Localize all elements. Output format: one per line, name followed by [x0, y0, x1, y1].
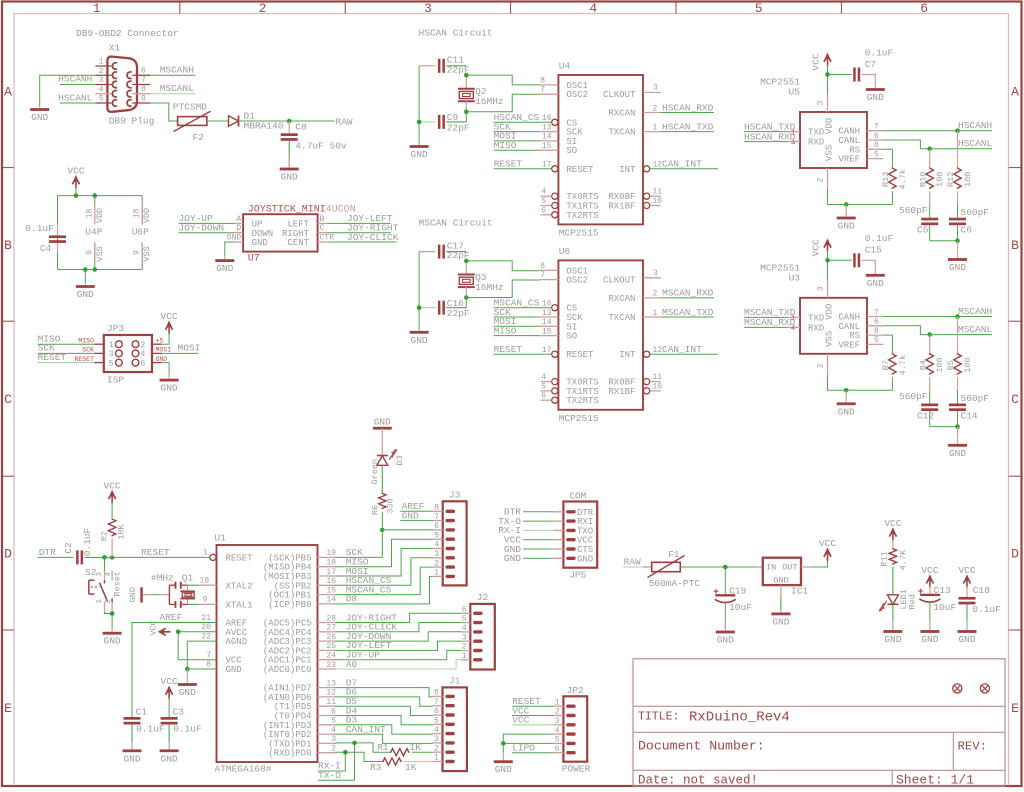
wire Q2 bottom to U4 pin7: [466, 94, 539, 122]
svg-text:4.7k: 4.7k: [898, 169, 908, 189]
svg-text:U7: U7: [248, 254, 260, 265]
svg-text:GND: GND: [577, 554, 593, 564]
IC U3 MCP2551: [800, 298, 867, 354]
svg-text:10: 10: [653, 382, 663, 391]
LED D3: [377, 428, 398, 465]
svg-text:3: 3: [109, 350, 114, 359]
svg-text:IN: IN: [766, 563, 776, 573]
frame row labels A-E right: [1011, 85, 1019, 717]
svg-text:HSCANL: HSCANL: [58, 92, 93, 103]
svg-text:5: 5: [874, 150, 879, 159]
svg-text:2: 2: [141, 341, 146, 350]
junction at C8: [287, 119, 292, 124]
svg-text:RAW: RAW: [336, 116, 353, 127]
svg-text:16: 16: [542, 300, 552, 309]
wire net MOSI: [494, 325, 540, 327]
svg-text:SO: SO: [566, 146, 577, 156]
svg-text:J3: J3: [449, 490, 461, 501]
title block: [633, 659, 1005, 786]
svg-text:7: 7: [874, 308, 879, 317]
svg-text:Date: not saved!: Date: not saved!: [638, 774, 758, 788]
svg-text:1: 1: [653, 309, 658, 318]
svg-text:4: 4: [99, 85, 104, 94]
svg-text:RXD: RXD: [808, 138, 824, 148]
J3 pin stubs: [433, 511, 443, 576]
svg-text:GND: GND: [179, 687, 196, 698]
svg-text:D8: D8: [346, 594, 358, 605]
U5 pin 5 VREF stub: [867, 158, 883, 160]
svg-text:560pF: 560pF: [961, 393, 990, 404]
JP3 small red pin labels left: [74, 338, 94, 363]
ground at JP3: [168, 374, 170, 379]
svg-text:11: 11: [653, 373, 663, 382]
svg-text:C10: C10: [973, 585, 990, 596]
wire LED1 to GND: [892, 604, 894, 630]
LED LED1: [879, 595, 899, 612]
svg-text:7: 7: [540, 271, 545, 280]
svg-text:Q1: Q1: [182, 573, 194, 584]
ground under S2: [111, 629, 113, 632]
svg-text:24: 24: [326, 652, 336, 661]
svg-text:RESET: RESET: [566, 165, 594, 175]
capacitor C3: [161, 717, 178, 750]
svg-text:RXCAN: RXCAN: [608, 294, 635, 304]
svg-text:VSS: VSS: [95, 246, 105, 261]
svg-text:C1: C1: [136, 707, 148, 718]
svg-text:LIPO: LIPO: [512, 743, 535, 754]
svg-text:U6: U6: [559, 246, 571, 257]
svg-text:GND: GND: [838, 221, 855, 232]
wire net LIPO at JP2: [512, 752, 554, 754]
svg-text:RESET: RESET: [38, 352, 67, 363]
svg-text:0.1uF: 0.1uF: [136, 724, 165, 735]
svg-text:OSC2: OSC2: [566, 276, 588, 286]
connector JP2 POWER: [563, 696, 587, 761]
svg-text:5: 5: [331, 717, 336, 726]
power VCC above R11: [884, 518, 901, 541]
U4 TXnRTS pin 4: [541, 188, 558, 200]
wire JP3 +5 to VCC: [162, 332, 170, 344]
svg-text:C6: C6: [961, 225, 973, 236]
svg-text:22: 22: [201, 632, 211, 641]
svg-text:GND: GND: [958, 634, 975, 645]
svg-text:100: 100: [963, 172, 973, 187]
svg-text:MISO: MISO: [78, 338, 94, 345]
svg-text:HSCANL: HSCANL: [958, 138, 993, 149]
svg-text:GND: GND: [717, 635, 734, 646]
wire net MOSI at JP3: [162, 352, 199, 354]
svg-text:2: 2: [653, 104, 658, 113]
U6 RXnBF pin 11: [644, 373, 663, 385]
wire net MOSI: [494, 140, 540, 142]
ground under C13: [920, 630, 939, 645]
connector JP5 COM: [563, 502, 597, 568]
wire U1 pin2 RXD net: [318, 752, 382, 771]
fuse F1 500mA-PTC: [648, 556, 685, 578]
svg-text:8: 8: [540, 76, 545, 85]
U6 pin 7 OSC2 stub: [540, 279, 559, 281]
svg-text:14: 14: [542, 133, 552, 142]
svg-text:MISO: MISO: [494, 325, 517, 336]
svg-text:HSCAN_RXD: HSCAN_RXD: [662, 102, 714, 113]
power VCC above U5: [811, 53, 832, 70]
svg-text:MISO: MISO: [494, 140, 517, 151]
svg-text:GND: GND: [504, 553, 521, 564]
svg-text:TXCAN: TXCAN: [608, 313, 635, 323]
U4 pin 7 OSC2 stub: [540, 93, 559, 95]
svg-text:3: 3: [653, 84, 658, 93]
U5 pin names: [808, 118, 860, 165]
svg-text:5: 5: [109, 359, 114, 368]
svg-text:C: C: [320, 224, 325, 233]
svg-text:GND: GND: [867, 92, 884, 103]
J2 pin stubs: [461, 613, 471, 660]
svg-text:500mA-PTC: 500mA-PTC: [649, 578, 701, 589]
svg-text:HSCANH: HSCANH: [58, 74, 92, 85]
U6 RXnBF pin 10: [644, 382, 663, 394]
junction VCC: [825, 258, 830, 263]
wire R11 to LED1: [892, 567, 894, 595]
resistor R11 4.7K: [889, 548, 896, 565]
svg-text:4.7k: 4.7k: [898, 355, 908, 375]
svg-text:GND: GND: [921, 634, 938, 645]
svg-text:Reset: Reset: [113, 571, 123, 597]
power VCC above C13: [921, 565, 938, 588]
crystal Q2: [458, 75, 475, 112]
U5 pin 7 CANH: [867, 130, 883, 132]
svg-text:RESET: RESET: [141, 547, 170, 558]
wire C2 to RESET junctions: [105, 556, 113, 558]
svg-text:3: 3: [331, 735, 336, 744]
junction JP2 GND: [501, 741, 506, 746]
svg-text:MSCANL: MSCANL: [160, 83, 195, 94]
svg-text:OSC2: OSC2: [566, 90, 588, 100]
svg-text:D: D: [4, 547, 12, 562]
svg-text:JOYSTICK_MINI: JOYSTICK_MINI: [248, 205, 326, 216]
junction RX-I: [343, 750, 348, 755]
U3 pin 2 VSS stub: [827, 354, 829, 374]
wire net JOY-CLICK row: [336, 623, 461, 632]
svg-text:1: 1: [93, 1, 101, 16]
frame row ticks left: [2, 168, 14, 630]
svg-text:GND: GND: [161, 753, 178, 764]
svg-text:X1: X1: [109, 43, 121, 54]
svg-text:7: 7: [141, 76, 146, 85]
svg-text:12: 12: [653, 346, 663, 355]
svg-text:RESET: RESET: [494, 159, 523, 170]
ground under C1: [123, 749, 142, 764]
svg-text:MSCAN_RXD: MSCAN_RXD: [662, 288, 714, 299]
svg-text:VCC: VCC: [819, 538, 836, 549]
JP5 pin bars: [566, 510, 576, 560]
wire net HSCAN_CS: [494, 121, 552, 123]
wire net JOY-UP: [179, 222, 235, 224]
svg-text:J1: J1: [449, 676, 461, 687]
svg-text:100: 100: [935, 357, 945, 372]
frame column labels 1-6: [93, 1, 928, 16]
svg-text:1: 1: [653, 123, 658, 132]
wire HSCANH: [60, 84, 95, 86]
wire net RX-I at JP5: [523, 529, 554, 531]
svg-text:VCC: VCC: [67, 166, 84, 177]
wire net HSCANL: [883, 140, 992, 149]
svg-text:3: 3: [99, 76, 104, 85]
svg-text:SCK: SCK: [82, 347, 94, 354]
U4 TXnRTS pin 5: [541, 197, 558, 209]
svg-text:GND: GND: [77, 289, 94, 300]
wire Q1 to XTAL2: [188, 584, 199, 586]
svg-text:U6P: U6P: [132, 226, 149, 237]
svg-text:A0: A0: [346, 659, 358, 670]
capacitor C13 10uF: [918, 586, 940, 630]
U1 right pin names: [263, 553, 312, 758]
wire VCC to C3: [168, 697, 170, 717]
wire net D5 row: [336, 706, 434, 715]
svg-text:10uF: 10uF: [933, 602, 956, 613]
wire cap bottoms join: [930, 240, 958, 242]
svg-text:GND: GND: [949, 448, 966, 459]
wire VCC to pin3 and cap: [828, 250, 852, 281]
resistor R5 100: [957, 317, 959, 354]
svg-text:RESET: RESET: [226, 553, 254, 563]
wire net MSCAN_RXD: [643, 297, 661, 299]
JP3 pin numbers: [109, 341, 146, 368]
svg-text:GND: GND: [772, 616, 789, 627]
title block crossed circles: [953, 684, 990, 693]
wire VCC to R2: [111, 501, 113, 518]
svg-text:330: 330: [386, 498, 396, 513]
svg-text:ATMEGA168#: ATMEGA168#: [215, 764, 272, 775]
ground under VSS: [845, 205, 847, 217]
wire net JOY-DOWN: [179, 232, 235, 234]
svg-text:9: 9: [141, 94, 146, 103]
svg-text:CLKOUT: CLKOUT: [603, 276, 636, 286]
svg-text:MOSI: MOSI: [178, 343, 201, 354]
wire net TX-O at JP5: [523, 520, 554, 522]
wire net JOY-RIGHT row: [336, 613, 461, 622]
IC U1 ATMEGA168: [217, 545, 318, 762]
svg-text:4: 4: [791, 325, 795, 333]
svg-text:VREF: VREF: [838, 155, 860, 165]
wire HSCANL: [60, 102, 95, 104]
svg-text:AGND: AGND: [226, 637, 248, 647]
svg-text:R12: R12: [946, 172, 956, 187]
resistor R1 1K: [390, 749, 410, 756]
svg-text:6: 6: [541, 392, 546, 401]
svg-text:GND: GND: [226, 665, 242, 675]
capacitor C9: [419, 115, 466, 129]
svg-text:B: B: [1011, 238, 1019, 253]
svg-text:MSCANL: MSCANL: [958, 324, 993, 335]
svg-text:PTCSMD: PTCSMD: [173, 102, 208, 113]
svg-text:Red: Red: [908, 594, 918, 609]
svg-text:MSCANH: MSCANH: [958, 306, 992, 317]
wire net D4 row: [336, 716, 434, 725]
junction TX-O: [352, 741, 357, 746]
ground under C15: [866, 274, 885, 289]
ground under C3: [160, 749, 179, 764]
svg-text:VCC: VCC: [811, 239, 822, 256]
svg-text:ISP: ISP: [107, 375, 124, 386]
svg-text:8: 8: [540, 262, 545, 271]
junction S2 GND: [110, 611, 115, 616]
svg-text:C8: C8: [295, 122, 307, 133]
svg-text:16: 16: [326, 577, 336, 586]
svg-text:2: 2: [817, 177, 826, 182]
svg-text:DTR: DTR: [39, 547, 56, 558]
svg-text:(ICP)PB0: (ICP)PB0: [268, 600, 311, 610]
svg-text:6: 6: [141, 359, 146, 368]
wire net MSCAN_CS row: [336, 567, 434, 595]
capacitor C2: [76, 550, 79, 564]
JP2 pin stubs: [554, 706, 564, 753]
svg-text:A: A: [236, 215, 241, 224]
wire net SCK at JP3: [38, 352, 95, 354]
svg-text:6: 6: [541, 206, 546, 215]
svg-text:26: 26: [326, 633, 336, 642]
svg-text:3: 3: [96, 572, 104, 577]
wire net RESET at JP3: [38, 362, 95, 364]
svg-text:7: 7: [540, 86, 545, 95]
svg-text:1K: 1K: [405, 762, 417, 773]
svg-text:INT: INT: [619, 350, 636, 360]
wire S2 to GND: [105, 612, 113, 629]
wire net HSCAN_CS row: [336, 558, 434, 586]
svg-text:11: 11: [653, 188, 663, 197]
wire net SCK: [494, 131, 540, 133]
U4 pin 12 INT bubble: [644, 166, 650, 172]
ground under power block: [84, 283, 86, 285]
ground above D3: [373, 427, 392, 430]
fuse F2 PTCSMD: [174, 111, 211, 131]
U4 pin 16 CS bubble: [552, 119, 558, 125]
svg-text:4.7K: 4.7K: [899, 549, 909, 570]
svg-text:25: 25: [326, 642, 336, 651]
svg-text:TXD: TXD: [808, 128, 824, 138]
svg-text:8: 8: [874, 327, 879, 336]
svg-text:XTAL2: XTAL2: [226, 581, 253, 591]
svg-text:J2: J2: [477, 592, 489, 603]
svg-text:17: 17: [542, 346, 552, 355]
capacitor C1: [124, 717, 141, 750]
svg-text:R5: R5: [946, 360, 956, 370]
svg-text:U4: U4: [559, 61, 571, 72]
svg-text:GND: GND: [216, 263, 233, 274]
svg-text:VCC: VCC: [161, 676, 178, 687]
U5 pin 2 VSS stub: [827, 168, 829, 188]
wire net MISO at JP3: [38, 343, 95, 345]
svg-text:Green: Green: [370, 459, 380, 485]
U6 pin 8 OSC1 stub: [540, 269, 559, 271]
wire net RESET to U1: [112, 556, 209, 558]
svg-text:Document Number:: Document Number:: [638, 739, 765, 754]
svg-text:5: 5: [874, 336, 879, 345]
svg-text:JP2: JP2: [567, 685, 584, 696]
wire net JOY-RIGHT: [327, 232, 390, 234]
svg-text:15: 15: [542, 142, 552, 151]
svg-text:+5: +5: [156, 338, 164, 345]
connector J2: [470, 604, 495, 670]
JP3 pin stubs: [94, 344, 161, 362]
power VCC above C10: [958, 565, 975, 588]
svg-text:R10: R10: [918, 172, 928, 187]
supply pin U6P VSS: [133, 242, 153, 261]
wire MSCANH: [150, 74, 195, 76]
wire net JOY-LEFT row: [336, 641, 461, 650]
svg-text:16MHz: 16MHz: [475, 96, 504, 107]
capacitor C19 10uF: [714, 567, 736, 631]
junction C19: [723, 565, 728, 570]
wire net D6 row: [336, 697, 434, 706]
svg-text:17: 17: [542, 161, 552, 170]
svg-text:MSCAN_TXD: MSCAN_TXD: [662, 307, 714, 318]
wire net HSCAN_TXD: [744, 131, 788, 133]
junction CANL: [927, 147, 932, 152]
svg-text:5: 5: [541, 382, 546, 391]
svg-text:23: 23: [326, 661, 336, 670]
svg-text:0.1uF: 0.1uF: [865, 233, 894, 244]
svg-text:15: 15: [542, 327, 552, 336]
svg-text:C2: C2: [63, 542, 74, 554]
svg-text:AREF: AREF: [160, 612, 183, 623]
svg-text:RX1BF: RX1BF: [608, 387, 635, 397]
svg-text:GND: GND: [838, 406, 855, 417]
svg-text:GND: GND: [161, 383, 178, 394]
svg-text:9: 9: [133, 250, 142, 255]
svg-text:VDD: VDD: [142, 208, 152, 223]
svg-text:22pF: 22pF: [447, 308, 470, 319]
U3 pin 5 VREF stub: [867, 343, 883, 345]
wire net JOY-LEFT: [327, 222, 390, 224]
wire net JOY-CLICK: [327, 241, 396, 243]
U3 pin 6 CANL: [867, 325, 883, 327]
svg-text:MSCANH: MSCANH: [160, 65, 194, 76]
J2 pin numbers: [462, 606, 467, 662]
J1 pin bars: [445, 695, 455, 764]
svg-text:B: B: [320, 215, 325, 224]
capacitor C11: [419, 59, 466, 73]
svg-text:2: 2: [99, 67, 104, 76]
capacitor C14 560pF: [949, 377, 966, 427]
resistor R4 100: [929, 335, 931, 354]
svg-text:R11: R11: [879, 551, 889, 566]
svg-text:(RXD)PD0: (RXD)PD0: [268, 749, 311, 759]
svg-text:14: 14: [326, 596, 336, 605]
svg-text:19: 19: [326, 549, 336, 558]
U7 pin names: [252, 220, 310, 249]
wire VSS to GND junction: [828, 188, 893, 204]
svg-text:C: C: [4, 392, 12, 407]
IC U6 MCP2515: [558, 260, 643, 409]
svg-text:CENT: CENT: [287, 238, 309, 248]
connector J3: [443, 501, 467, 585]
svg-text:VSS: VSS: [825, 145, 835, 161]
svg-text:HSCAN_RXD: HSCAN_RXD: [744, 131, 796, 142]
U4 pin names: [566, 81, 636, 221]
svg-text:4: 4: [589, 1, 597, 16]
ground at U1: [186, 669, 188, 683]
ground under C10: [958, 630, 977, 645]
svg-text:5: 5: [99, 95, 104, 104]
wire net DTR at JP5: [523, 511, 554, 513]
svg-text:TX2RTS: TX2RTS: [566, 396, 598, 406]
svg-text:A: A: [4, 85, 12, 100]
svg-text:GND: GND: [411, 149, 428, 160]
svg-text:VCC: VCC: [958, 565, 975, 576]
U5 pin 3 stub: [827, 95, 829, 112]
svg-text:8: 8: [874, 141, 879, 150]
wire net CAN_INT: [650, 353, 718, 355]
